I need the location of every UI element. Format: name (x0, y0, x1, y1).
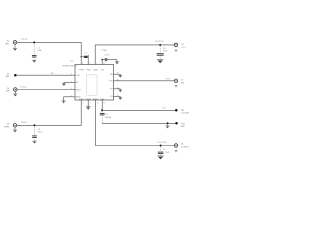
wire VIN drop to PVIN pin (80, 42, 82, 62)
svg-text:1.2V: 1.2V (162, 108, 167, 110)
C1 value label (37, 47, 42, 52)
svg-text:C7: C7 (163, 149, 165, 151)
svg-text:C3: C3 (38, 129, 40, 131)
C3 value label (38, 129, 43, 134)
junction C7 (160, 145, 162, 147)
J7 label (181, 80, 184, 85)
svg-text:3.3 VOUT: 3.3 VOUT (158, 142, 168, 144)
svg-text:TPS82130SILR: TPS82130SILR (62, 65, 77, 67)
connector J6 EN (14, 74, 16, 77)
TP3 label (181, 123, 186, 128)
connector J4 (13, 124, 17, 128)
svg-text:3300pF: 3300pF (105, 117, 112, 119)
J5 label (6, 88, 10, 93)
svg-text:22uF: 22uF (165, 152, 169, 154)
svg-text:9: 9 (89, 103, 90, 105)
ground at FB pin 13 stub (116, 96, 122, 99)
svg-text:PG: PG (181, 82, 184, 84)
ground at C1 (32, 60, 36, 62)
C6 value label (163, 48, 168, 53)
ground at C6 (157, 60, 163, 64)
wire SW to VOUT top (95, 45, 176, 62)
svg-text:3.3 VOUT: 3.3 VOUT (181, 147, 189, 149)
svg-text:11: 11 (103, 103, 105, 105)
ground at C3 (32, 141, 36, 143)
svg-text:C1: C1 (37, 47, 39, 49)
ground at SW pin 16 stub (116, 74, 122, 77)
svg-text:PGND: PGND (86, 99, 92, 101)
svg-text:8: 8 (82, 103, 83, 105)
connector J3 (174, 144, 178, 148)
ground at AGND pin 7 stub (62, 97, 73, 104)
svg-text:VIN: VIN (5, 43, 9, 45)
connector J7 PG (174, 79, 178, 83)
svg-text:SS/TR: SS/TR (76, 89, 82, 91)
wire C4 to TP3 GND (102, 122, 175, 124)
ground at J7 (175, 86, 178, 88)
wire VIN horizontal (17, 41, 82, 43)
wire PG to J7 (mid right) (116, 80, 175, 82)
TP1 label (181, 110, 190, 115)
connector J5 SS (14, 88, 17, 92)
connector J1 VIN (13, 41, 17, 45)
J1 label (5, 41, 9, 46)
wire J4 to FSW pin (17, 102, 82, 125)
ground at C5 (115, 60, 119, 65)
svg-text:1514-2: 1514-2 (21, 122, 28, 124)
svg-text:1514-2: 1514-2 (21, 39, 28, 41)
svg-text:VOUT: VOUT (181, 47, 185, 49)
ground at PGND pin 9 (86, 102, 91, 110)
svg-text:3.3 VOUT: 3.3 VOUT (155, 41, 165, 43)
J3 label (181, 144, 189, 149)
C7 value label (163, 149, 169, 154)
ground at C7 (157, 156, 164, 160)
IC bottom pin stubs (81, 100, 102, 102)
J2 label (181, 44, 185, 49)
junction J4/C3 (34, 124, 36, 126)
svg-text:FSW: FSW (4, 126, 9, 128)
capacitor C7 (158, 147, 164, 156)
IC pin names right (109, 74, 113, 98)
J4 label (4, 124, 9, 129)
svg-text:AGND: AGND (76, 96, 82, 99)
IC pin names left (76, 75, 82, 99)
svg-text:1514-2: 1514-2 (20, 86, 27, 88)
ground at J1 (13, 44, 17, 51)
junction VOS (101, 109, 103, 111)
svg-text:3: 3 (82, 63, 83, 65)
C4 value label (105, 114, 112, 119)
IC right pin stubs (114, 74, 116, 96)
ground at TP3 wire (165, 123, 169, 128)
svg-text:FSW: FSW (79, 99, 83, 101)
svg-text:EN: EN (6, 76, 9, 78)
capacitor C1 (32, 44, 37, 60)
junction VOUT/C6 (159, 44, 161, 46)
IC pin names top (79, 70, 104, 72)
svg-text:C4: C4 (105, 114, 107, 116)
capacitor C2 (SVIN) (81, 55, 88, 62)
ground at EN pin 5 stub (62, 82, 73, 86)
connector J2 VOUT (174, 43, 178, 47)
ground at J2 (175, 50, 178, 52)
IC pin numbers (71, 63, 118, 105)
capacitor C5 branch (top right bypass) (101, 58, 117, 62)
svg-text:1: 1 (96, 63, 97, 65)
junction VIN/C1 (33, 41, 35, 43)
junction GND (167, 122, 169, 124)
svg-text:SW: SW (104, 50, 107, 52)
svg-text:+1.2 VOUT: +1.2 VOUT (181, 113, 190, 115)
svg-text:17: 17 (103, 63, 105, 65)
IC left pin stubs (73, 75, 75, 97)
wire FB to J3 (bottom) (95, 102, 176, 145)
IC pin names bottom (79, 98, 105, 101)
wire VOS to TP1 (102, 109, 175, 111)
IC U1 body (75, 65, 114, 101)
junction SVIN cap tap (81, 56, 82, 57)
svg-text:SW: SW (110, 74, 113, 76)
svg-text:AGND: AGND (93, 98, 99, 101)
ground at J5 (13, 91, 17, 96)
IC top pin stubs (81, 62, 102, 64)
capacitor C3 (32, 127, 37, 141)
svg-text:5 PG: 5 PG (165, 79, 170, 81)
ground at J3 (175, 151, 178, 153)
test point TP1 (175, 109, 178, 112)
wire EN (17, 74, 73, 76)
svg-text:10: 10 (97, 103, 99, 105)
svg-text:2: 2 (89, 63, 90, 65)
wire SS (17, 89, 73, 91)
test point TP3 (175, 122, 178, 125)
svg-text:C6: C6 (163, 48, 165, 50)
wire DEF pin to VOS node (101, 102, 103, 110)
capacitor C4 (100, 111, 105, 123)
ground at J4 (13, 127, 17, 133)
ground at PG pin 14 stub (116, 89, 122, 92)
capacitor C6 (157, 46, 164, 59)
J6 label (6, 74, 10, 79)
svg-text:0.1uF: 0.1uF (105, 54, 111, 56)
